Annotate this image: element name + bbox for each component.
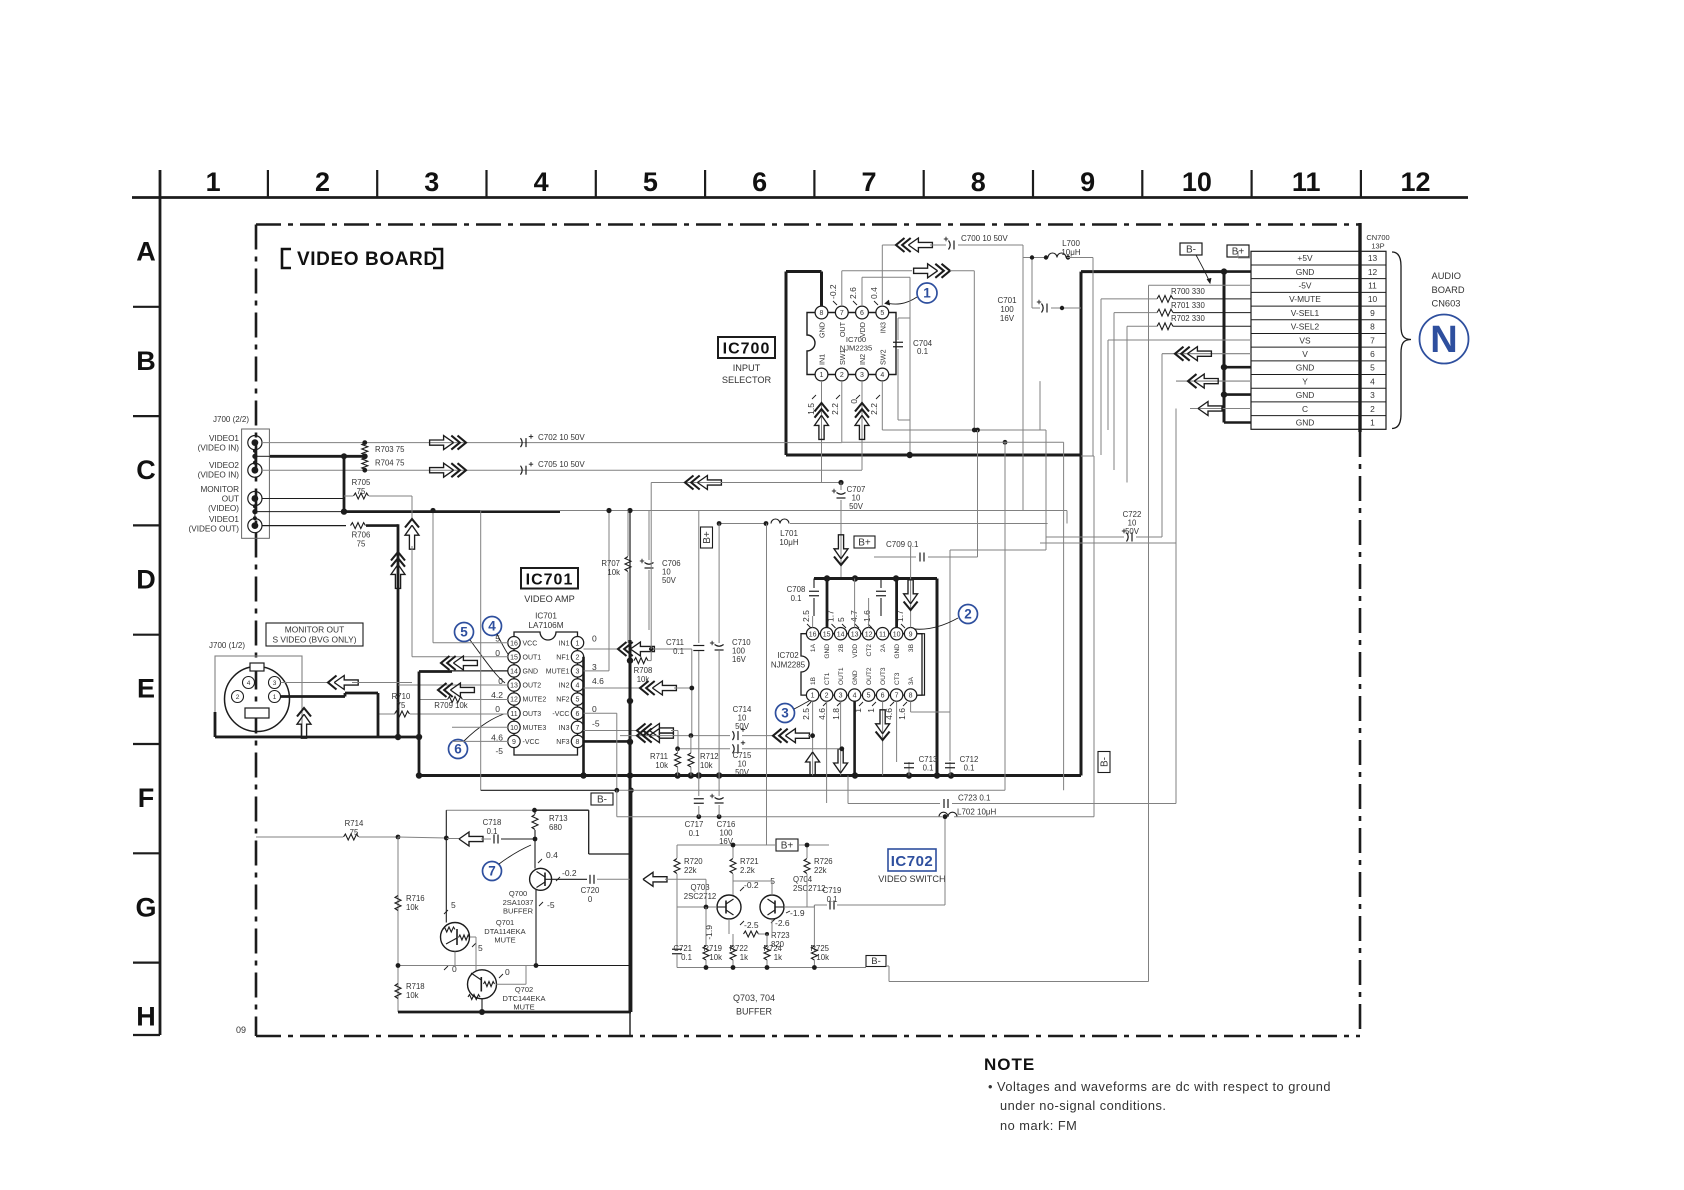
- wire video1 in: [262, 442, 842, 444]
- svg-text:LA7106M: LA7106M: [528, 621, 563, 630]
- transistor Q700: [530, 868, 552, 890]
- IC701 pin 4: [571, 679, 583, 691]
- RCA shield pins lower: [254, 506, 256, 519]
- svg-text:V-SEL2: V-SEL2: [1291, 322, 1320, 332]
- svg-text:OUT: OUT: [222, 495, 239, 504]
- svg-text:4: 4: [488, 619, 496, 634]
- resistor R723 820: [744, 931, 759, 937]
- wire IC700 pin6 VDD: [861, 277, 863, 306]
- svg-text:16: 16: [510, 640, 518, 647]
- wire V net vertical: [1161, 354, 1163, 537]
- svg-text:10: 10: [1182, 167, 1212, 197]
- board outline right dash-dot lower: [1359, 432, 1362, 1036]
- svg-text:VIDEO SWITCH: VIDEO SWITCH: [878, 874, 945, 884]
- capacitor near pin11: [880, 579, 882, 589]
- svg-text:4: 4: [880, 372, 884, 379]
- wire r714 to arrow: [398, 837, 446, 838]
- svg-text:R714: R714: [345, 819, 364, 828]
- svg-text:13: 13: [851, 631, 859, 638]
- svg-text:0: 0: [592, 634, 597, 644]
- leader from B- box: [1196, 255, 1210, 283]
- svg-text:9: 9: [909, 631, 913, 638]
- svg-text:1k: 1k: [774, 953, 782, 962]
- svg-text:2.5: 2.5: [801, 610, 811, 622]
- wire IC700 pin4 down: [881, 381, 883, 430]
- svg-text:-VCC: -VCC: [523, 739, 540, 746]
- capacitor C714: [620, 735, 672, 737]
- board reference N circle: [1420, 315, 1469, 364]
- svg-text:VIDEO BOARD: VIDEO BOARD: [297, 249, 438, 270]
- wire collector loop top: [446, 809, 534, 811]
- svg-text:-2.5: -2.5: [744, 920, 759, 930]
- wire R700 left: [1101, 298, 1157, 300]
- IC701 pin 3: [571, 665, 583, 677]
- svg-text:V-SEL1: V-SEL1: [1291, 308, 1320, 318]
- wire Q700 emitter down: [535, 890, 537, 966]
- transistor Q701: [441, 923, 470, 952]
- svg-text:Q703: Q703: [690, 883, 709, 892]
- svg-text:16V: 16V: [1000, 314, 1015, 323]
- svg-text:R726: R726: [814, 857, 833, 866]
- svg-text:14: 14: [837, 631, 845, 638]
- svg-text:IN3: IN3: [559, 725, 570, 732]
- connector CN700 body: [1251, 251, 1386, 429]
- node circled 6: [449, 740, 468, 759]
- IC702 pin 4: [848, 689, 860, 701]
- arrows below IC702: [812, 701, 814, 775]
- svg-text:-VCC: -VCC: [552, 711, 569, 718]
- svg-text:12: 12: [865, 631, 873, 638]
- label box B+ 2: [854, 536, 875, 548]
- IC702 pin 11: [876, 628, 888, 640]
- svg-text:6: 6: [881, 693, 885, 700]
- capacitor C711: [698, 511, 700, 644]
- svg-text:0.1: 0.1: [827, 895, 838, 904]
- grid frame left border: [159, 170, 162, 1035]
- wire R701 left: [1114, 312, 1157, 314]
- wire q703 emitter: [728, 919, 730, 934]
- resistor R726 22k: [804, 859, 810, 874]
- wire IC701 pin7 right: [584, 730, 638, 732]
- wire q704 base right: [784, 906, 807, 908]
- svg-text:D: D: [136, 564, 156, 594]
- IC701 pin 12: [508, 693, 520, 705]
- svg-text:NF2: NF2: [556, 697, 569, 704]
- svg-text:B-: B-: [597, 795, 607, 806]
- svg-text:11: 11: [1368, 281, 1377, 291]
- wire IC701 pin8 NF3 thick: [584, 740, 631, 743]
- arrow out1: [453, 656, 477, 670]
- svg-text:12: 12: [1368, 267, 1378, 277]
- IC702 pin 3: [834, 689, 846, 701]
- grid row ticks: [133, 306, 160, 308]
- svg-text:10μH: 10μH: [1061, 248, 1081, 257]
- svg-text:4.6: 4.6: [817, 708, 827, 720]
- wire GND bus thick: [1223, 272, 1226, 423]
- IC701 pin 8: [571, 735, 583, 747]
- resistor R706 75: [351, 523, 366, 529]
- svg-text:-2.6: -2.6: [775, 918, 790, 928]
- svg-text:R705: R705: [352, 478, 371, 487]
- S-video pin 4: [243, 677, 255, 689]
- svg-text:7: 7: [840, 310, 844, 317]
- wire B- rail: [481, 789, 617, 791]
- svg-text:IN1: IN1: [818, 354, 827, 365]
- wire x398 down: [397, 837, 399, 1012]
- wire rail y510: [481, 510, 1067, 512]
- svg-text:C718: C718: [483, 818, 502, 827]
- svg-text:OUT1: OUT1: [838, 667, 845, 685]
- wire B+ bus thick: [1081, 270, 1224, 273]
- IC701 pin 7: [571, 721, 583, 733]
- svg-text:3: 3: [273, 680, 277, 687]
- svg-text:N: N: [1430, 319, 1457, 361]
- arrow out2: [450, 683, 474, 697]
- transistor Q704: [760, 895, 784, 919]
- svg-text:2SC2712: 2SC2712: [793, 884, 826, 893]
- svg-text:5: 5: [643, 167, 658, 197]
- svg-text:C: C: [136, 455, 156, 485]
- svg-text:VDD: VDD: [852, 644, 859, 658]
- wire -vcc pin9: [452, 740, 508, 742]
- svg-text:5: 5: [1370, 363, 1375, 373]
- svg-text:CT1: CT1: [824, 672, 831, 685]
- capacitor C710: [718, 524, 720, 644]
- svg-text:0: 0: [592, 704, 597, 714]
- svg-text:V: V: [1302, 349, 1308, 359]
- S-video connector circle: [225, 667, 290, 732]
- svg-text:IC701: IC701: [535, 612, 557, 621]
- svg-text:(VIDEO IN): (VIDEO IN): [198, 471, 240, 480]
- svg-text:10k: 10k: [655, 761, 668, 770]
- svg-text:6: 6: [860, 310, 864, 317]
- wire pin7 down: [896, 701, 898, 762]
- svg-text:• Voltages and waveforms are d: • Voltages and waveforms are dc with res…: [988, 1079, 1331, 1094]
- svg-text:50V: 50V: [662, 576, 677, 585]
- svg-text:1: 1: [820, 372, 824, 379]
- svg-text:R709 10k: R709 10k: [434, 701, 467, 710]
- capacitor C701: [1031, 258, 1033, 309]
- svg-text:3B: 3B: [908, 643, 915, 652]
- svg-text:10μH: 10μH: [779, 538, 799, 547]
- svg-text:(VIDEO IN): (VIDEO IN): [198, 444, 240, 453]
- wire s-video gnd thick: [215, 736, 419, 739]
- S-video pin 2: [232, 691, 244, 703]
- wire V row with arrow: [1162, 353, 1251, 355]
- svg-text:MUTE: MUTE: [513, 1003, 534, 1012]
- svg-text:0: 0: [849, 399, 859, 404]
- capacitor C706: [648, 511, 650, 561]
- svg-text:9: 9: [1370, 308, 1375, 318]
- svg-text:2.2k: 2.2k: [740, 866, 755, 875]
- svg-text:GND: GND: [523, 669, 539, 676]
- IC701 pin 10: [508, 721, 520, 733]
- svg-text:1B: 1B: [810, 676, 817, 685]
- svg-text:2: 2: [825, 693, 829, 700]
- RCA jack 1: [248, 436, 262, 450]
- svg-text:0.1: 0.1: [923, 764, 934, 773]
- resistor R707 10k: [627, 511, 629, 557]
- svg-text:1.6: 1.6: [862, 610, 872, 622]
- svg-text:5: 5: [867, 693, 871, 700]
- IC702 pin 14: [834, 628, 846, 640]
- IC701 pin 1: [571, 637, 583, 649]
- svg-text:4: 4: [247, 680, 251, 687]
- wire out1 left: [412, 656, 508, 658]
- resistor R719 10k: [705, 907, 707, 946]
- IC702 heavy top bus: [814, 577, 937, 580]
- svg-text:VS: VS: [1299, 335, 1311, 345]
- svg-text:BUFFER: BUFFER: [736, 1007, 773, 1017]
- resistor R703 75: [362, 443, 368, 455]
- svg-text:C701: C701: [997, 296, 1017, 305]
- svg-text:13: 13: [1368, 253, 1378, 263]
- S-video pin 3: [269, 677, 281, 689]
- label box B- buffer: [866, 956, 886, 967]
- capacitor C721: [676, 946, 678, 949]
- svg-text:AUDIO: AUDIO: [1432, 271, 1461, 281]
- svg-text:S VIDEO (BVG ONLY): S VIDEO (BVG ONLY): [272, 635, 356, 645]
- svg-text:+5V: +5V: [1297, 253, 1313, 263]
- IC700 pin 2: [835, 368, 848, 381]
- inductor L701: [771, 519, 789, 524]
- svg-text:4.7: 4.7: [849, 610, 859, 622]
- svg-text:OUT3: OUT3: [523, 711, 542, 718]
- wire video out jack: [262, 525, 346, 527]
- svg-text:NF3: NF3: [556, 739, 569, 746]
- svg-text:R719: R719: [703, 944, 722, 953]
- svg-text:2SC2712: 2SC2712: [684, 892, 717, 901]
- capacitor C713: [908, 762, 910, 776]
- resistor R724 1k: [766, 934, 768, 946]
- node circled 2: [959, 605, 978, 624]
- svg-text:5: 5: [576, 697, 580, 704]
- IC702 pin 12: [862, 628, 874, 640]
- wire C net vertical: [1175, 409, 1177, 804]
- svg-text:GND: GND: [1296, 363, 1315, 373]
- wire IC701 vcc rail: [433, 642, 508, 644]
- svg-text:3A: 3A: [908, 676, 915, 685]
- wire IC701 pin2 NF1 thick down: [582, 657, 585, 776]
- svg-text:11: 11: [510, 711, 517, 718]
- wire IC702 3B to 3A bracket: [917, 634, 925, 695]
- svg-text:0.1: 0.1: [917, 347, 929, 356]
- svg-text:6: 6: [752, 167, 767, 197]
- svg-text:VIDEO1: VIDEO1: [209, 434, 239, 443]
- svg-text:0.4: 0.4: [546, 850, 558, 860]
- node circled 7: [483, 862, 502, 881]
- svg-text:8: 8: [576, 739, 580, 746]
- svg-text:C705 10 50V: C705 10 50V: [538, 460, 585, 469]
- wire video out thick down: [397, 524, 400, 737]
- capacitor C723: [848, 803, 940, 805]
- wire -5V row: [1149, 284, 1252, 286]
- node circled 4: [483, 617, 502, 636]
- svg-text:BOARD: BOARD: [1432, 285, 1465, 295]
- resistor R704 75: [362, 458, 368, 470]
- svg-text:MONITOR OUT: MONITOR OUT: [285, 625, 344, 635]
- svg-text:0.4: 0.4: [869, 287, 879, 299]
- svg-text:1: 1: [811, 693, 815, 700]
- label box B- rotated right: [1098, 752, 1110, 773]
- svg-text:10k: 10k: [816, 953, 829, 962]
- svg-text:R707: R707: [601, 559, 620, 568]
- svg-text:7: 7: [576, 725, 580, 732]
- wire pin2 down: [826, 701, 828, 803]
- wire Y net vertical: [1039, 381, 1041, 430]
- capacitor C702: [521, 438, 523, 447]
- resistor R718 10k: [395, 984, 401, 999]
- svg-text:16: 16: [809, 631, 817, 638]
- svg-text:E: E: [137, 674, 155, 704]
- capacitor C717: [698, 776, 700, 797]
- wire q704 collector: [771, 881, 773, 895]
- svg-text:R700 330: R700 330: [1171, 287, 1205, 296]
- IC701 label box: [521, 568, 578, 589]
- svg-text:C700 10 50V: C700 10 50V: [961, 234, 1008, 243]
- IC702 pin 7: [890, 689, 902, 701]
- svg-text:0.1: 0.1: [487, 827, 498, 836]
- wire IC701 pin1 right: [584, 648, 619, 650]
- svg-text:L702 10μH: L702 10μH: [957, 808, 997, 817]
- svg-text:IN3: IN3: [878, 322, 887, 333]
- svg-text:7: 7: [488, 864, 496, 879]
- svg-text:B: B: [136, 346, 156, 376]
- svg-text:Y: Y: [1302, 376, 1308, 386]
- svg-text:OUT2: OUT2: [866, 667, 873, 685]
- svg-text:10k: 10k: [406, 903, 419, 912]
- grid column ticks: [267, 170, 269, 198]
- svg-text:6: 6: [576, 711, 580, 718]
- connector J700 (1/2) body box: [215, 656, 302, 736]
- svg-text:R720: R720: [684, 857, 703, 866]
- svg-text:2A: 2A: [880, 643, 887, 652]
- board outline right solid upper: [1358, 223, 1361, 432]
- resistor R714 75: [256, 836, 343, 838]
- IC700 pin 5: [876, 306, 889, 319]
- svg-text:1.8: 1.8: [831, 708, 841, 720]
- IC702 pin 2: [820, 689, 832, 701]
- RCA jack 4: [248, 519, 262, 533]
- svg-text:INPUT: INPUT: [733, 363, 761, 373]
- svg-text:5: 5: [460, 625, 468, 640]
- svg-text:0.1: 0.1: [689, 829, 700, 838]
- svg-text:GND: GND: [824, 644, 831, 659]
- wire IC700 heavy gnd: [785, 272, 788, 456]
- svg-text:9: 9: [1080, 167, 1095, 197]
- capacitor C712: [949, 762, 951, 776]
- IC701 pin 13: [508, 679, 520, 691]
- capacitor C715: [678, 748, 730, 750]
- svg-text:15: 15: [823, 631, 831, 638]
- svg-text:R712: R712: [700, 752, 719, 761]
- connector J700 (2/2) body: [242, 429, 270, 538]
- svg-text:C721: C721: [673, 944, 692, 953]
- svg-text:50V: 50V: [735, 722, 750, 731]
- svg-text:(VIDEO): (VIDEO): [208, 504, 239, 513]
- svg-text:Q703, 704: Q703, 704: [733, 993, 775, 1003]
- wire video2 in: [262, 469, 862, 471]
- svg-text:B+: B+: [702, 531, 713, 544]
- svg-text:22k: 22k: [814, 866, 827, 875]
- svg-text:IC700: IC700: [723, 341, 771, 358]
- svg-text:GND: GND: [1296, 417, 1315, 427]
- svg-text:680: 680: [549, 823, 563, 832]
- svg-text:1: 1: [923, 286, 931, 301]
- svg-text:C: C: [1302, 404, 1308, 414]
- svg-text:22k: 22k: [684, 866, 697, 875]
- svg-text:Q704: Q704: [793, 875, 813, 884]
- svg-text:J700 (2/2): J700 (2/2): [213, 415, 249, 424]
- svg-text:Q700: Q700: [509, 889, 527, 898]
- node circled 1: [917, 283, 937, 303]
- svg-text:-5V: -5V: [1298, 281, 1311, 291]
- svg-text:C708: C708: [787, 585, 806, 594]
- IC700 pin 8: [815, 306, 828, 319]
- arrow into C718: [459, 832, 483, 846]
- svg-text:OUT: OUT: [838, 321, 847, 337]
- svg-text:4: 4: [1370, 376, 1375, 386]
- resistor R711 10k: [675, 746, 680, 751]
- svg-text:IN2: IN2: [858, 354, 867, 365]
- svg-text:2.2: 2.2: [869, 403, 879, 415]
- svg-text:C709 0.1: C709 0.1: [886, 540, 919, 549]
- wire video out shield thick: [255, 511, 344, 513]
- capacitor C722: [1046, 536, 1124, 538]
- svg-text:16V: 16V: [732, 655, 747, 664]
- wire +5V row: [1237, 251, 1239, 258]
- svg-text:3: 3: [1370, 390, 1375, 400]
- svg-text:12: 12: [510, 697, 518, 704]
- wire s-video c thick: [281, 695, 346, 698]
- label box MONITOR OUT S VIDEO: [266, 623, 363, 646]
- svg-text:MUTE1: MUTE1: [546, 669, 570, 676]
- wire B+ rail buffer: [677, 844, 776, 846]
- label box B+ rotated: [701, 527, 713, 548]
- svg-text:R713: R713: [549, 814, 568, 823]
- wire IC700 bottom bus heavy: [786, 454, 1081, 457]
- inductor L700: [1023, 257, 1047, 259]
- svg-text:R706: R706: [352, 531, 371, 540]
- arrow up s-video: [297, 714, 311, 738]
- svg-text:2SA1037: 2SA1037: [503, 898, 534, 907]
- IC702 pin 6: [876, 689, 888, 701]
- wire pin12 up: [868, 598, 870, 628]
- svg-text:9: 9: [512, 739, 516, 746]
- connector CN700 row lines: [1251, 264, 1386, 266]
- IC700 pin 7: [835, 306, 848, 319]
- arrow c720: [643, 872, 667, 886]
- svg-text:4: 4: [853, 693, 857, 700]
- capacitor C705: [521, 466, 523, 475]
- resistor R716 10k: [395, 896, 401, 911]
- svg-text:SW2: SW2: [878, 349, 887, 365]
- wire buffer gnd rail: [677, 967, 866, 969]
- IC701 pin 6: [571, 707, 583, 719]
- resistor R708 10k: [634, 658, 648, 664]
- wire grey y816: [617, 816, 942, 818]
- svg-text:1: 1: [866, 708, 876, 713]
- arrow up R705 wire: [405, 525, 419, 549]
- svg-text:1: 1: [576, 640, 580, 647]
- svg-text:2: 2: [1370, 404, 1375, 414]
- resistor R713 680: [532, 815, 538, 830]
- svg-text:50V: 50V: [735, 768, 750, 777]
- svg-text:IC701: IC701: [526, 572, 574, 589]
- svg-text:50V: 50V: [849, 502, 864, 511]
- wire pin8 right: [910, 701, 912, 712]
- wire out2 left: [398, 684, 508, 686]
